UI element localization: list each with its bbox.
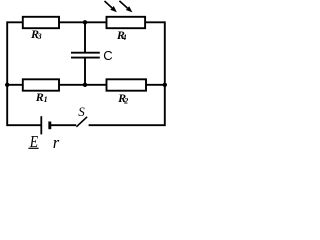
svg-text:1: 1 [44, 95, 48, 104]
svg-text:r: r [53, 133, 60, 151]
wire bottom right segment [89, 124, 165, 126]
svg-text:3: 3 [37, 32, 42, 41]
capacitor C stem bottom [84, 58, 86, 85]
svg-text:4: 4 [121, 33, 126, 42]
battery short plate [48, 122, 51, 130]
resistor R2 [107, 79, 147, 90]
capacitor C stem top [84, 22, 86, 52]
label E underline [28, 147, 38, 149]
wire right vertical [164, 21, 166, 126]
wire middle horizontal [7, 84, 165, 86]
node left-middle junction [5, 83, 9, 87]
arrow 2 onto R4 [119, 1, 132, 13]
capacitor C plates [71, 52, 100, 54]
svg-text:C: C [103, 48, 112, 63]
resistor R4 [107, 17, 146, 28]
battery long plate [40, 116, 42, 134]
svg-text:R: R [35, 90, 44, 104]
resistor R3 [23, 17, 59, 28]
resistor R1 [23, 79, 59, 90]
svg-text:2: 2 [123, 96, 128, 105]
svg-text:S: S [78, 104, 85, 119]
wire left vertical [6, 21, 8, 126]
arrow 1 onto R4 [105, 1, 117, 12]
node right-middle junction [163, 83, 167, 87]
wire top horizontal [7, 21, 165, 23]
node capacitor-top junction [83, 20, 87, 24]
wire battery-to-switch segment [50, 124, 76, 126]
node capacitor-middle junction [83, 83, 87, 87]
switch S blade [76, 117, 87, 127]
wire bottom left segment [7, 124, 41, 126]
